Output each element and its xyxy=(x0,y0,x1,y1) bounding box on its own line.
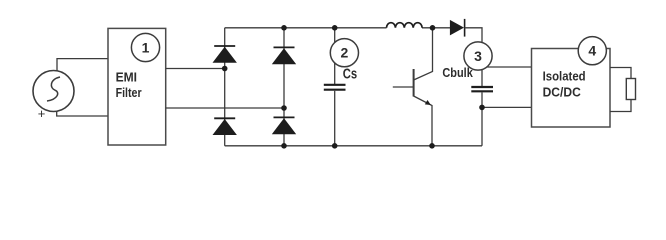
svg-text:Isolated: Isolated xyxy=(543,69,586,84)
wire bottom rail xyxy=(225,145,482,147)
label EMI Filter xyxy=(116,70,142,101)
node: Cs bottom junction xyxy=(332,143,338,149)
marker circle 1 xyxy=(131,33,159,61)
resistor R load xyxy=(626,79,635,100)
node: inductor / diode / collector junction xyxy=(430,25,436,31)
wire source top to EMI filter xyxy=(57,59,108,71)
marker circle 2 xyxy=(330,39,358,67)
svg-text:+: + xyxy=(38,106,46,121)
wire Cbulk node to DC/DC input top xyxy=(480,66,532,68)
node: Cbulk bottom junction xyxy=(479,105,485,111)
svg-text:Filter: Filter xyxy=(116,85,142,100)
voltage source V1 (AC input) xyxy=(33,71,74,112)
wire EMI filter output bottom (crosses left leg) xyxy=(166,107,284,109)
svg-text:Cbulk: Cbulk xyxy=(442,65,473,80)
inductor L1 xyxy=(387,23,423,28)
wire Cbulk bottom node to DC/DC input bottom xyxy=(482,106,532,108)
node: bridge top-right junction xyxy=(281,25,287,31)
node: Cs top junction xyxy=(332,25,338,31)
node: emitter bottom junction xyxy=(429,143,435,149)
node: bridge bottom-right junction xyxy=(281,143,287,149)
wire source bottom to EMI filter xyxy=(57,111,108,116)
Isolated DC/DC converter block xyxy=(532,49,611,128)
diode D3 (bridge top-right) xyxy=(272,47,296,64)
svg-text:EMI: EMI xyxy=(116,70,137,85)
svg-text:Cs: Cs xyxy=(343,67,357,83)
node: EMI bottom output junction xyxy=(281,105,287,111)
wire bridge left leg xyxy=(224,28,226,146)
EMI Filter block xyxy=(108,28,166,145)
wire DC/DC output bottom to load xyxy=(610,100,631,112)
transistor Q1 (boost switch) xyxy=(393,28,433,146)
wire DC/DC output top to load xyxy=(610,68,631,79)
svg-text:3: 3 xyxy=(474,48,482,64)
marker circle 4 xyxy=(578,37,606,65)
svg-text:DC/DC: DC/DC xyxy=(543,85,582,100)
wire diode D5 to Cbulk corner xyxy=(465,28,482,43)
node: EMI top output junction xyxy=(222,66,228,72)
diode D4 (bridge bottom-right) xyxy=(272,117,296,134)
diode D2 (bridge bottom-left) xyxy=(213,118,237,135)
marker circle 3 xyxy=(464,42,492,70)
diode D1 (bridge top-left) xyxy=(213,46,237,63)
wire top rail after inductor xyxy=(422,27,451,29)
wire bridge right leg xyxy=(283,28,285,146)
wire EMI filter output top xyxy=(166,68,225,70)
diode D5 (boost output diode) xyxy=(450,19,465,37)
svg-text:1: 1 xyxy=(142,40,150,56)
wire top rail xyxy=(225,27,387,29)
svg-text:2: 2 xyxy=(341,45,349,61)
svg-text:4: 4 xyxy=(588,43,596,59)
label Isolated DC/DC xyxy=(543,69,586,100)
capacitor Cs xyxy=(324,28,346,146)
capacitor Cbulk xyxy=(471,43,493,146)
